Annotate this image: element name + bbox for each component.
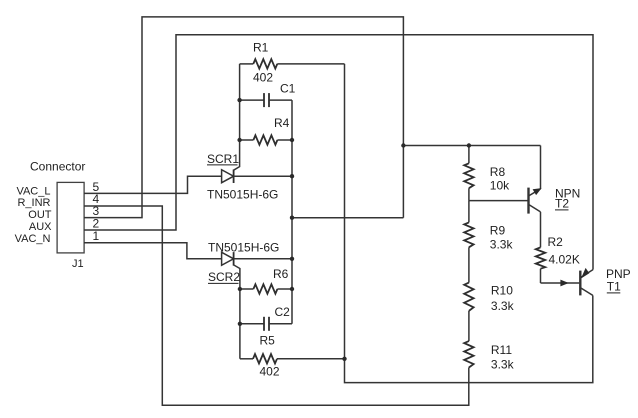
svg-text:3.3k: 3.3k bbox=[491, 299, 515, 313]
wire T1 base with arrow bbox=[541, 280, 580, 287]
svg-text:R_INR: R_INR bbox=[17, 197, 50, 209]
svg-text:T2: T2 bbox=[555, 197, 569, 211]
resistor R1 bbox=[240, 40, 345, 84]
connector J1 body bbox=[30, 160, 85, 270]
junction dot C1 left bbox=[237, 98, 241, 102]
junction dot SCR2 bus bbox=[290, 257, 294, 261]
svg-text:R6: R6 bbox=[273, 267, 289, 281]
svg-text:3.3k: 3.3k bbox=[491, 357, 515, 371]
resistor R6 bbox=[240, 267, 292, 294]
junction dot R6 right bbox=[290, 287, 294, 291]
wire pin5 to SCR1 anode bbox=[84, 176, 222, 193]
SCR2 gate bbox=[234, 265, 240, 359]
resistor R4 bbox=[240, 116, 292, 145]
svg-text:VAC_L: VAC_L bbox=[16, 185, 50, 197]
wire pin2 AUX loop B top bbox=[84, 35, 593, 270]
resistor R9 bbox=[464, 201, 513, 283]
svg-text:1: 1 bbox=[93, 229, 100, 243]
label PNP T1 bbox=[606, 267, 631, 294]
label NPN T2 bbox=[555, 187, 580, 211]
svg-text:TN5015H-6G: TN5015H-6G bbox=[208, 241, 279, 255]
resistor R10 bbox=[464, 283, 514, 342]
svg-text:C1: C1 bbox=[280, 82, 296, 96]
junction dot loop A rail bbox=[401, 143, 405, 147]
svg-text:R5: R5 bbox=[260, 333, 276, 347]
svg-text:R9: R9 bbox=[490, 224, 506, 238]
svg-text:3.3k: 3.3k bbox=[490, 238, 514, 252]
svg-text:R11: R11 bbox=[491, 343, 512, 357]
resistor R2 bbox=[536, 235, 580, 283]
svg-text:R1: R1 bbox=[253, 40, 269, 54]
bus vertical SCR block bbox=[291, 100, 293, 324]
wire T2 emitter vertical bbox=[540, 146, 542, 189]
svg-text:SCR1: SCR1 bbox=[207, 152, 239, 166]
junction dot R5 right bbox=[342, 357, 346, 361]
svg-text:Connector: Connector bbox=[30, 160, 85, 174]
svg-text:R8: R8 bbox=[490, 165, 506, 179]
junction dot R4 right bbox=[290, 138, 294, 142]
wire pin4 R_INR down to bottom and up to R11 bbox=[84, 206, 469, 405]
resistor R11 bbox=[464, 341, 514, 371]
svg-text:VAC_N: VAC_N bbox=[15, 233, 51, 245]
capacitor C2 bbox=[240, 305, 292, 331]
svg-text:TN5015H-6G: TN5015H-6G bbox=[207, 188, 278, 202]
svg-text:402: 402 bbox=[253, 71, 273, 85]
junction dot SCR1 bus bbox=[290, 174, 294, 178]
junction dot R4 left bbox=[237, 138, 241, 142]
svg-text:R4: R4 bbox=[274, 116, 290, 130]
wire top rail 145 bbox=[403, 145, 540, 147]
SCR1 bbox=[222, 170, 292, 184]
svg-text:R2: R2 bbox=[548, 235, 564, 249]
wire mid junction to loop A vertical bbox=[292, 217, 403, 219]
svg-text:T1: T1 bbox=[607, 280, 621, 294]
svg-text:J1: J1 bbox=[72, 258, 84, 270]
junction dot mid bus bbox=[290, 216, 294, 220]
svg-text:C2: C2 bbox=[275, 305, 291, 319]
svg-text:AUX: AUX bbox=[29, 221, 52, 233]
resistor R5 bbox=[240, 333, 345, 378]
svg-text:4.02K: 4.02K bbox=[549, 253, 580, 267]
wire pin1 VAC_N to SCR2 anode bbox=[84, 243, 222, 259]
svg-text:10k: 10k bbox=[490, 179, 510, 193]
wire T2 base bbox=[469, 200, 528, 202]
transistor T2 NPN bbox=[529, 188, 542, 248]
wire bus right of R1 down to bottom rail bbox=[345, 64, 593, 383]
label SCR2 bbox=[208, 270, 240, 284]
SCR1 gate bbox=[234, 64, 240, 170]
svg-text:SCR2: SCR2 bbox=[208, 270, 240, 284]
resistor R8 bbox=[464, 146, 510, 201]
junction dot R6 left bbox=[238, 287, 242, 291]
wire pin3 OUT loop A top bbox=[84, 17, 403, 218]
label SCR1 bbox=[207, 152, 239, 166]
svg-text:R10: R10 bbox=[491, 283, 513, 297]
svg-text:402: 402 bbox=[260, 365, 280, 379]
capacitor C1 bbox=[240, 82, 296, 108]
SCR2 bbox=[222, 252, 292, 266]
svg-text:OUT: OUT bbox=[28, 209, 52, 221]
transistor T1 PNP bbox=[580, 268, 593, 296]
junction dot R8 top bbox=[467, 143, 471, 147]
junction dot C2 left bbox=[238, 322, 242, 326]
